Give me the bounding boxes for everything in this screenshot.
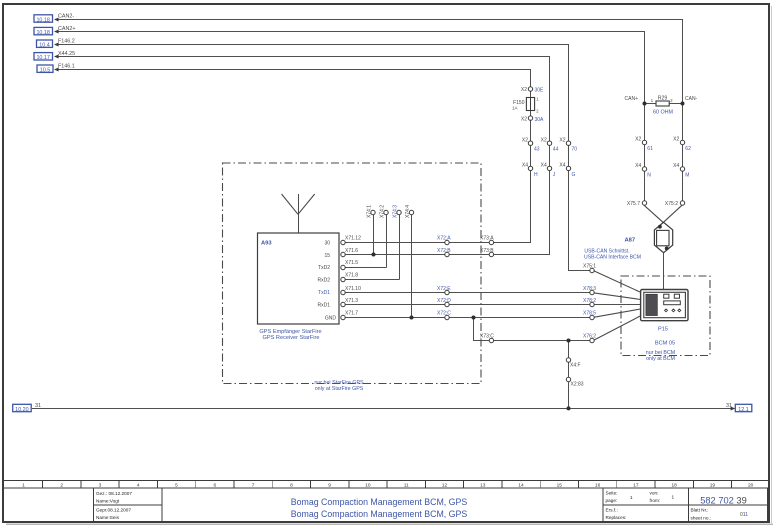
svg-text:X2: X2 [559,137,565,143]
wire CAN- vertical (x=682) R29 to X75:2 [682,101,684,201]
svg-text:X2: X2 [635,137,641,143]
svg-text:X72:D: X72:D [437,298,451,304]
connector X72:A [437,236,451,245]
svg-text:von:: von: [650,491,659,496]
svg-text:BCM 05: BCM 05 [655,341,675,347]
svg-text:44: 44 [553,147,559,153]
svg-text:F146.2: F146.2 [58,39,75,45]
svg-text:only at BCM: only at BCM [646,356,675,362]
svg-text:10.4: 10.4 [39,43,50,49]
wire entry arrows at left refs [54,18,59,72]
wire X78:5 diagonal to P15 [594,309,640,317]
wire row E: TxD1 to X78:3 [345,292,592,294]
fuse F150 1A [512,97,539,114]
junction on CAN+ column [643,102,647,106]
svg-text:X75.7: X75.7 [627,201,640,207]
svg-text:10.18: 10.18 [36,30,50,36]
connector X2:62 [673,137,691,152]
wire X74:4 drop to GND row junction [411,215,413,318]
wire X78:3 diagonal to P15 [594,293,640,300]
svg-text:X78:5: X78:5 [583,311,596,317]
connector X2:30A [521,116,544,123]
wire X76:2 diagonal to P15 [594,316,640,340]
BCM option enclosure (dash-dot) [621,276,710,356]
antenna of A93 [282,194,315,233]
wire X44.25 (row 4 to J column) [55,57,550,142]
svg-text:CAN-: CAN- [685,96,698,102]
connector X72:B [437,248,451,257]
svg-text:Replaces:: Replaces: [606,515,627,520]
connector X74:3 [393,205,402,218]
wire RxD2 to X74:3 [345,279,399,281]
svg-text:7: 7 [252,482,255,488]
connector X4:N [635,163,651,178]
svg-text:12.1: 12.1 [738,407,749,413]
node 12.1 (rail 31 destination ref) [735,404,752,413]
svg-text:X74:3: X74:3 [393,205,399,218]
node 10.18 (source ref CAN2+) [34,27,53,36]
svg-text:17: 17 [633,482,639,488]
connector X4:H [522,163,538,178]
svg-text:15: 15 [324,253,330,259]
wire CAN+ vertical (x=644) R29 to X75.7 [644,101,646,201]
wire CAN2- (row 1 to right vertical) [55,20,683,102]
svg-text:X71.5: X71.5 [345,260,358,266]
svg-text:X72:A: X72:A [437,236,451,242]
svg-text:10.17: 10.17 [36,55,50,61]
GPS option enclosure (dash-dot) [223,163,482,384]
node 10.17 (source ref X44.25) [34,53,53,62]
svg-text:13: 13 [480,482,486,488]
svg-text:60 OHM: 60 OHM [653,109,674,115]
svg-text:sheet no.:: sheet no.: [691,516,712,521]
svg-text:X2: X2 [541,137,547,143]
wire X75.7 to A87 upper-right corner [644,205,672,230]
GPS receiver A93 box [258,233,340,324]
svg-text:4: 4 [137,482,140,488]
connector X73:C [480,334,494,343]
wire row A: pin 30 to H column [345,242,530,244]
wire G column to X75:1 [569,87,590,271]
svg-text:X74:2: X74:2 [380,205,386,218]
svg-text:5: 5 [175,482,178,488]
svg-text:M: M [685,172,689,178]
svg-text:X78:3: X78:3 [583,286,596,292]
wire X75:1 diagonal to P15 [594,271,640,292]
arrow into 12.1 [731,407,736,411]
svg-text:X73:C: X73:C [480,334,494,340]
svg-text:RxD2: RxD2 [317,278,330,284]
svg-text:1: 1 [630,495,633,500]
connector X74:2 [380,205,389,218]
A93 pin circles [341,240,345,319]
svg-text:Blatt Nr.:: Blatt Nr.: [691,508,709,513]
svg-text:10.20: 10.20 [15,407,29,413]
svg-text:1: 1 [22,482,25,488]
svg-text:582 702 39: 582 702 39 [700,496,747,506]
svg-text:Gez.: 08.12.2007: Gez.: 08.12.2007 [96,491,132,496]
svg-text:43: 43 [534,147,540,153]
connector X2:43 [522,137,540,152]
svg-text:USB-CAN Interface BCM: USB-CAN Interface BCM [584,255,641,261]
svg-text:6: 6 [213,482,216,488]
svg-text:X75:2: X75:2 [665,201,678,207]
connector X2:70 [559,137,577,152]
svg-text:only at StarFire GPS: only at StarFire GPS [315,386,364,392]
wire J column X4:J to row B [488,145,549,254]
svg-text:X4: X4 [559,163,565,169]
svg-text:X72:E: X72:E [437,286,451,292]
svg-text:GPS Receiver StarFire: GPS Receiver StarFire [263,335,320,341]
connector X4:G [559,163,575,178]
wire resistor link [645,103,683,105]
connector X2:61 [635,137,653,152]
svg-text:19: 19 [710,482,716,488]
svg-text:15: 15 [557,482,563,488]
svg-text:70: 70 [572,147,578,153]
wire row C: GND to X78:5 [345,317,592,319]
svg-text:from:: from: [650,498,661,503]
wire F146.1 (row 5 to fuse column) [55,70,531,88]
svg-text:2: 2 [60,482,63,488]
node 10.5 (source ref F146.1) [37,65,53,74]
junction X73:C row / ground drop [567,339,571,343]
svg-text:Bomag Compaction Management BC: Bomag Compaction Management BCM, GPS [291,509,468,519]
svg-text:X76:2: X76:2 [583,334,596,340]
svg-text:X4: X4 [635,163,641,169]
svg-text:X71.12: X71.12 [345,236,361,242]
junction X74:4 / GND row [410,316,414,320]
svg-text:X2: X2 [673,137,679,143]
junction GND row / X73:C drop [472,316,476,320]
svg-text:RxD1: RxD1 [317,303,330,309]
svg-text:A87: A87 [625,238,636,244]
resistor R29 60 OHM [651,95,674,115]
connector X72:C [437,311,451,320]
svg-text:18: 18 [672,482,678,488]
svg-text:30: 30 [324,241,330,247]
svg-text:X75:1: X75:1 [583,264,596,270]
svg-text:Seite:: Seite: [606,491,618,496]
title block (drawing frame) [3,480,769,522]
junction X74:1 / 15-row [372,253,376,257]
svg-text:X71.3: X71.3 [345,298,358,304]
svg-text:1A: 1A [512,105,517,110]
wire drop junction to X4:F / X2:83 column [568,341,570,409]
svg-text:30A: 30A [535,117,545,123]
svg-text:USB-CAN Schnittst.: USB-CAN Schnittst. [584,248,629,254]
svg-text:Name:Seis: Name:Seis [96,515,120,520]
connector X75:1 [583,264,596,273]
connector X4:M [673,163,689,178]
svg-text:page:: page: [606,498,618,503]
svg-text:10: 10 [365,482,371,488]
svg-text:X2: X2 [522,137,528,143]
svg-text:X4: X4 [522,163,528,169]
svg-text:10.18: 10.18 [36,17,50,23]
svg-text:A93: A93 [261,241,272,247]
svg-text:9: 9 [328,482,331,488]
svg-text:X4:F: X4:F [570,363,581,369]
display P15 (BCM terminal) [641,290,688,321]
svg-text:X72:C: X72:C [437,311,451,317]
svg-text:31: 31 [35,403,41,409]
wire X74:2 drop to TxD2 row [386,215,388,268]
svg-text:3: 3 [99,482,102,488]
connector X2:30E [521,87,544,94]
node 10.4 (source ref F146.2) [37,40,53,49]
svg-text:11: 11 [404,482,409,488]
connector X75.7 [627,201,647,207]
connector X72:E [437,286,451,295]
svg-text:X78:2: X78:2 [583,298,596,304]
junction rail 31 / X2:83 drop [567,406,571,410]
svg-text:Gepr.08.12.2007: Gepr.08.12.2007 [96,508,131,513]
connector X75:2 [665,201,685,207]
connector X74:1 [367,205,376,218]
svg-text:Bomag Compaction Management BC: Bomag Compaction Management BCM, GPS [291,497,468,507]
svg-text:30E: 30E [535,87,545,93]
svg-text:X2: X2 [521,116,527,122]
wire X78:2 row into P15 [594,304,640,306]
svg-text:X72:B: X72:B [437,248,451,254]
svg-text:1: 1 [672,495,675,500]
wire CAN2+ (row 2 to left vertical) [55,32,645,102]
svg-text:011: 011 [740,512,748,518]
svg-text:TxD1: TxD1 [318,290,330,296]
svg-text:Ers.f.:: Ers.f.: [606,508,618,513]
svg-text:GND: GND [325,315,337,321]
svg-text:X71.7: X71.7 [345,311,358,317]
node 10.20 (rail 31 source ref) [13,404,32,413]
op-amp? no: USB interface A87 symbol [654,222,672,252]
wire row D: RxD1 to X78:2 [345,304,592,306]
svg-text:62: 62 [685,146,691,152]
wire fuse column X2:30A to X4:H to row A [489,120,531,243]
connector X74:4 [405,205,414,218]
wire X74:3 drop to RxD2 row [399,215,401,280]
svg-text:8: 8 [290,482,293,488]
connector X78:3 [583,286,596,295]
connector X2:83 [566,377,583,387]
svg-text:14: 14 [518,482,524,488]
svg-text:20: 20 [748,482,754,488]
wire row B: pin 15 to J column [345,254,549,256]
wire ground rail 31 [32,408,734,410]
svg-text:CAN2+: CAN2+ [58,26,76,32]
svg-text:X71.8: X71.8 [345,273,358,279]
wire drop to X73:C row [474,318,593,341]
svg-text:X74:4: X74:4 [405,205,411,218]
svg-text:X71.6: X71.6 [345,248,358,254]
connector X73:B [480,248,494,257]
wire X74:1 drop to junction on 15-row [373,215,375,255]
wire TxD2 to X74:2 [345,267,386,269]
wire F146.2 (row 3 to G column) [55,45,569,88]
svg-text:X73:B: X73:B [480,248,494,254]
svg-text:R29: R29 [658,95,668,101]
connector X4:F [566,358,580,369]
wire fuse column X2:30E to X2:30A [530,91,532,116]
wire X75:2 to A87 upper-left corner [655,205,682,230]
svg-text:H: H [534,172,538,178]
connector X2:44 [541,137,559,152]
svg-text:X44.25: X44.25 [58,51,75,57]
svg-text:10.5: 10.5 [40,68,51,74]
svg-text:P15: P15 [658,327,668,333]
connector X78:5 [583,311,596,320]
node 10.18 (source ref CAN2-) [34,15,53,24]
connector X72:D [437,298,451,307]
svg-text:X4: X4 [541,163,547,169]
svg-text:X74:1: X74:1 [367,205,373,218]
svg-text:X71.10: X71.10 [345,286,361,292]
connector X76:2 [583,334,596,343]
svg-text:X2:83: X2:83 [571,382,584,388]
connector X73:A [480,236,494,245]
svg-text:F146.1: F146.1 [58,63,75,69]
svg-text:TxD2: TxD2 [318,265,330,271]
svg-text:61: 61 [647,146,653,152]
junction on CAN- column [681,102,685,106]
connector X78:2 [583,298,596,307]
svg-text:X4: X4 [673,163,679,169]
svg-text:12: 12 [442,482,448,488]
svg-text:CAN+: CAN+ [625,96,639,102]
svg-text:X73:A: X73:A [480,236,494,242]
svg-text:X2: X2 [521,87,527,93]
wire A87 to P15 [663,253,665,290]
svg-text:G: G [572,172,576,178]
svg-text:N: N [647,172,651,178]
connector X4:J [541,163,556,178]
svg-text:CAN2-: CAN2- [58,14,74,20]
svg-text:16: 16 [595,482,601,488]
svg-text:Name:Vogt: Name:Vogt [96,499,120,504]
